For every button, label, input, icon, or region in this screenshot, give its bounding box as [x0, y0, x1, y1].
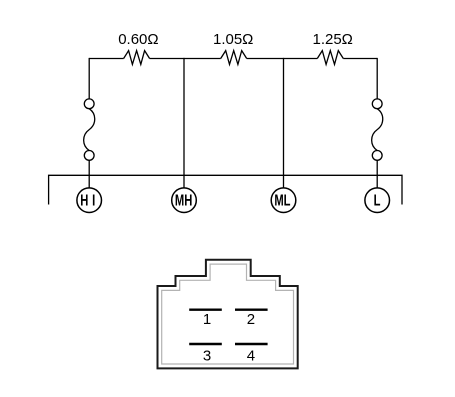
pin 4 number — [247, 347, 255, 364]
svg-text:1: 1 — [203, 311, 211, 328]
svg-text:1.05Ω: 1.05Ω — [213, 31, 253, 48]
thermal fuse TF1 bottom terminal circle — [84, 151, 94, 161]
wire top rail segment B — [150, 58, 221, 60]
svg-text:3: 3 — [203, 347, 211, 364]
wire MH drop — [183, 58, 185, 188]
wire top rail segment C — [247, 58, 318, 60]
pin 4 bar — [235, 343, 268, 345]
pin 2 bar — [235, 309, 268, 311]
wire right drop lower to L — [376, 160, 378, 187]
pin 3 bar — [189, 343, 222, 345]
svg-text:4: 4 — [247, 347, 255, 364]
svg-text:HI: HI — [80, 191, 99, 210]
wire top rail segment A — [89, 58, 123, 60]
terminal ML circle — [271, 188, 296, 213]
terminal ML label — [274, 191, 290, 210]
pin 2 number — [247, 311, 255, 328]
terminal L circle — [365, 188, 390, 213]
terminal HI circle — [77, 188, 102, 213]
connector edge bus with end ticks — [49, 175, 402, 204]
pin 1 number — [203, 311, 211, 328]
pin 3 number — [203, 347, 211, 364]
wire left drop lower to HI — [88, 160, 90, 187]
pin 1 bar — [189, 309, 222, 311]
svg-text:0.60Ω: 0.60Ω — [118, 31, 158, 48]
thermal fuse TF1 top terminal circle — [84, 99, 94, 109]
value label 1.05Ω — [213, 31, 253, 48]
thermal fuse TF2 bottom terminal circle — [372, 151, 382, 161]
svg-text:1.25Ω: 1.25Ω — [312, 31, 352, 48]
wire left drop upper — [88, 58, 90, 99]
thermal fuse TF2 top terminal circle — [372, 99, 382, 109]
svg-text:MH: MH — [175, 191, 192, 210]
connector housing inner outline — [162, 264, 294, 364]
resistor R1 zigzag — [124, 51, 150, 65]
svg-text:2: 2 — [247, 311, 255, 328]
value label 1.25Ω — [312, 31, 352, 48]
connector housing outer outline — [158, 260, 298, 369]
value label 0.60Ω — [118, 31, 158, 48]
wire ML drop — [283, 58, 285, 188]
thermal fuse TF2 element S-curve — [372, 109, 383, 151]
wire right drop upper — [376, 58, 378, 99]
wire top rail segment D — [343, 58, 377, 60]
resistor R3 zigzag — [317, 51, 343, 65]
thermal fuse TF1 element S-curve — [84, 109, 95, 151]
svg-text:L: L — [374, 191, 381, 210]
terminal MH label — [175, 191, 192, 210]
svg-text:ML: ML — [274, 191, 290, 210]
resistor R2 zigzag — [221, 51, 247, 65]
terminal MH circle — [172, 188, 197, 213]
terminal HI label — [80, 191, 99, 210]
terminal L label — [374, 191, 381, 210]
